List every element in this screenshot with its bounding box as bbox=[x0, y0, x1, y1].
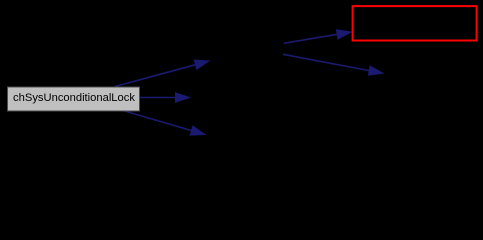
node red-bordered (truncated) bbox=[353, 6, 477, 40]
svg-text:chSysUnconditionalLock: chSysUnconditionalLock bbox=[13, 92, 135, 104]
wire edge1 to upper node bbox=[115, 60, 209, 86]
wire edge4 to red box bbox=[284, 30, 351, 44]
wire edge3 lower bbox=[123, 111, 205, 136]
wire edge2 middle horizontal bbox=[140, 93, 190, 102]
wire edge5 to lower-right node bbox=[283, 54, 383, 75]
node chSysUnconditionalLock bbox=[8, 87, 140, 111]
